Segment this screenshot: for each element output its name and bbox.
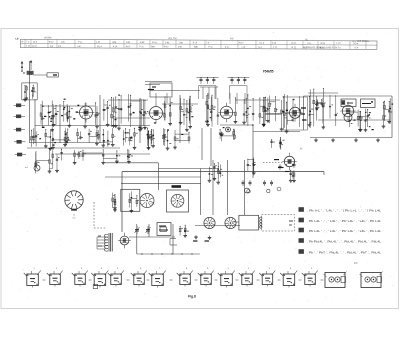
svg-text:M 4r: M 4r (321, 42, 326, 45)
svg-text:0.5t: 0.5t (178, 45, 182, 48)
svg-text:LE: LE (15, 37, 18, 40)
svg-text:VGL TM: VGL TM (168, 38, 177, 40)
svg-text:, Pb PbL4L ' , PbL4L ' , ' , P: , Pb PbL4L ' , PbL4L ' , ' , PbL4L ' , P… (307, 239, 381, 243)
svg-text:VEITRI: VEITRI (44, 38, 52, 40)
svg-text:, Pb I+L ' , ' L4L ' , ' , ' |: , Pb I+L ' , ' L4L ' , ' , ' | Pb L+L ' … (307, 208, 381, 212)
svg-text:R 22: R 22 (32, 46, 37, 48)
svg-text:mf: mf (25, 167, 28, 169)
svg-text:R 22: R 22 (164, 46, 169, 48)
svg-text:+L+ VDF DDEAL: +L+ VDF DDEAL (352, 40, 370, 43)
svg-text:P546/55: P546/55 (263, 70, 274, 74)
svg-text:52 m: 52 m (353, 43, 358, 45)
svg-text:B 41: B 41 (152, 42, 157, 44)
svg-text:, Pb L4L ' , ' , ' L4L ' , ' P: , Pb L4L ' , ' , ' L4L ' , ' Pb' L4L ' ,… (307, 219, 381, 223)
svg-text:KEY PIEATE SENLE D B RE P LIV: KEY PIEATE SENLE D B RE P LIV (303, 46, 338, 49)
svg-text:x 2f: x 2f (242, 47, 246, 49)
svg-text:x 2f: x 2f (96, 42, 100, 44)
svg-text:TIE: TIE (230, 38, 234, 40)
svg-text:m: m (73, 215, 75, 217)
svg-text:BBt: BBt (151, 45, 155, 48)
svg-text:0.5t: 0.5t (126, 41, 130, 44)
svg-text:R 22: R 22 (292, 47, 297, 49)
svg-text:AA 7: AA 7 (126, 45, 131, 48)
svg-text:2 rr: 2 rr (206, 41, 210, 44)
svg-text:9 dF: 9 dF (140, 42, 145, 44)
svg-text:DL 4: DL 4 (260, 43, 265, 45)
svg-text:AA 7: AA 7 (239, 42, 244, 45)
svg-text:nm: nm (72, 217, 75, 219)
svg-text:DL 4: DL 4 (97, 46, 102, 48)
svg-text:, Pb ' , ' PbT ' , PbL4L ' , ': , Pb ' , ' PbT ' , PbL4L ' , ' , PbL4L '… (307, 250, 381, 254)
svg-text:A.: A. (300, 147, 303, 151)
svg-text:, Pb L4L ' , ' , ' L4L ' , ' P: , Pb L4L ' , ' , ' L4L ' , ' Pb' L4L ' ,… (307, 229, 381, 233)
svg-text:Fig.8: Fig.8 (188, 295, 196, 299)
svg-text:R 22: R 22 (49, 42, 54, 44)
svg-text:BBt: BBt (113, 41, 117, 44)
svg-text:BBt: BBt (194, 46, 198, 49)
svg-text:R 22: R 22 (291, 43, 296, 45)
svg-text:3 xr: 3 xr (307, 42, 311, 45)
